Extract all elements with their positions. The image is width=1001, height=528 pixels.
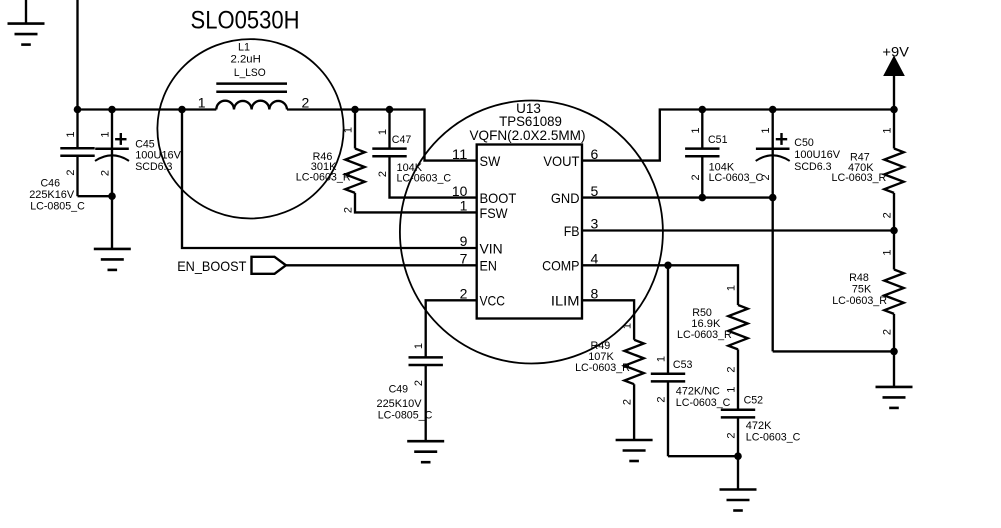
svg-text:1: 1 bbox=[413, 343, 425, 349]
svg-text:1: 1 bbox=[690, 127, 702, 133]
svg-text:2: 2 bbox=[656, 396, 668, 402]
svg-text:1: 1 bbox=[726, 285, 738, 291]
svg-text:2: 2 bbox=[882, 212, 894, 218]
svg-text:SCD6.3: SCD6.3 bbox=[794, 161, 831, 173]
svg-text:2: 2 bbox=[100, 170, 112, 176]
svg-text:100U16V: 100U16V bbox=[135, 149, 181, 161]
svg-text:2: 2 bbox=[690, 174, 702, 180]
svg-text:1: 1 bbox=[377, 129, 389, 135]
svg-text:VCC: VCC bbox=[480, 293, 506, 309]
svg-text:L1: L1 bbox=[238, 42, 250, 54]
svg-text:FB: FB bbox=[564, 223, 580, 239]
svg-text:SLO0530H: SLO0530H bbox=[191, 7, 300, 35]
svg-text:LC-0603_R: LC-0603_R bbox=[296, 172, 351, 184]
svg-text:2: 2 bbox=[460, 286, 468, 302]
svg-text:1: 1 bbox=[882, 127, 894, 133]
svg-text:225K10V: 225K10V bbox=[377, 398, 423, 410]
svg-text:LC-0603_R: LC-0603_R bbox=[832, 295, 887, 307]
svg-text:R48: R48 bbox=[849, 272, 869, 284]
svg-text:1: 1 bbox=[726, 387, 738, 393]
svg-text:C46: C46 bbox=[41, 178, 61, 190]
svg-text:2.2uH: 2.2uH bbox=[231, 53, 261, 65]
svg-text:1: 1 bbox=[882, 249, 894, 255]
svg-text:1: 1 bbox=[622, 323, 634, 329]
svg-text:LC-0603_C: LC-0603_C bbox=[746, 432, 801, 444]
svg-text:100U16V: 100U16V bbox=[794, 149, 840, 161]
svg-text:5: 5 bbox=[591, 183, 599, 199]
svg-text:EN_BOOST: EN_BOOST bbox=[177, 258, 247, 274]
svg-text:C50: C50 bbox=[794, 137, 814, 149]
svg-text:SW: SW bbox=[480, 153, 501, 169]
svg-text:LC-0603_R: LC-0603_R bbox=[575, 362, 630, 374]
svg-text:1: 1 bbox=[343, 127, 355, 133]
svg-text:472K/NC: 472K/NC bbox=[676, 385, 720, 397]
svg-text:2: 2 bbox=[622, 399, 634, 405]
svg-text:1: 1 bbox=[198, 95, 206, 111]
svg-text:2: 2 bbox=[302, 95, 310, 111]
svg-text:7: 7 bbox=[460, 251, 468, 267]
svg-text:10: 10 bbox=[452, 183, 468, 199]
svg-text:FSW: FSW bbox=[480, 205, 509, 221]
svg-text:LC-0603_R: LC-0603_R bbox=[832, 172, 887, 184]
svg-text:VOUT: VOUT bbox=[543, 153, 580, 169]
svg-text:1: 1 bbox=[460, 198, 468, 214]
svg-text:8: 8 bbox=[591, 286, 599, 302]
svg-text:LC-0603_C: LC-0603_C bbox=[397, 173, 452, 185]
svg-text:LC-0805_C: LC-0805_C bbox=[378, 409, 433, 421]
svg-text:C49: C49 bbox=[389, 384, 409, 396]
svg-text:2: 2 bbox=[377, 171, 389, 177]
svg-text:11: 11 bbox=[452, 146, 468, 162]
svg-text:2: 2 bbox=[413, 380, 425, 386]
svg-text:GND: GND bbox=[551, 190, 580, 206]
svg-text:2: 2 bbox=[882, 329, 894, 335]
svg-text:VQFN(2.0X2.5MM): VQFN(2.0X2.5MM) bbox=[470, 127, 586, 143]
svg-text:LC-0603_C: LC-0603_C bbox=[709, 172, 764, 184]
svg-text:ILIM: ILIM bbox=[551, 293, 580, 309]
svg-text:L_LSO: L_LSO bbox=[234, 67, 266, 79]
svg-text:2: 2 bbox=[343, 207, 355, 213]
svg-text:9: 9 bbox=[460, 233, 468, 249]
svg-text:LC-0603_R: LC-0603_R bbox=[677, 329, 732, 341]
svg-text:BOOT: BOOT bbox=[480, 190, 517, 206]
svg-text:75K: 75K bbox=[852, 284, 872, 296]
svg-text:1: 1 bbox=[656, 356, 668, 362]
svg-text:2: 2 bbox=[726, 366, 738, 372]
svg-text:225K16V: 225K16V bbox=[29, 189, 75, 201]
svg-text:C53: C53 bbox=[673, 359, 693, 371]
svg-text:LC-0805_C: LC-0805_C bbox=[30, 201, 85, 213]
svg-text:472K: 472K bbox=[746, 420, 772, 432]
svg-text:C51: C51 bbox=[708, 134, 728, 146]
svg-text:C52: C52 bbox=[744, 395, 764, 407]
svg-text:VIN: VIN bbox=[480, 240, 503, 256]
svg-text:1: 1 bbox=[760, 127, 772, 133]
svg-text:2: 2 bbox=[726, 432, 738, 438]
svg-text:LC-0603_C: LC-0603_C bbox=[676, 397, 731, 409]
svg-text:16.9K: 16.9K bbox=[691, 318, 721, 330]
svg-text:2: 2 bbox=[65, 169, 77, 175]
svg-text:EN: EN bbox=[480, 258, 497, 274]
svg-text:3: 3 bbox=[591, 216, 599, 232]
svg-text:+9V: +9V bbox=[882, 44, 909, 60]
svg-text:6: 6 bbox=[591, 146, 599, 162]
svg-text:2: 2 bbox=[760, 174, 772, 180]
svg-text:4: 4 bbox=[591, 251, 599, 267]
svg-text:1: 1 bbox=[65, 131, 77, 137]
svg-text:COMP: COMP bbox=[542, 258, 579, 274]
svg-text:C47: C47 bbox=[392, 134, 412, 146]
svg-text:SCD6.3: SCD6.3 bbox=[135, 161, 172, 173]
svg-text:1: 1 bbox=[100, 131, 112, 137]
